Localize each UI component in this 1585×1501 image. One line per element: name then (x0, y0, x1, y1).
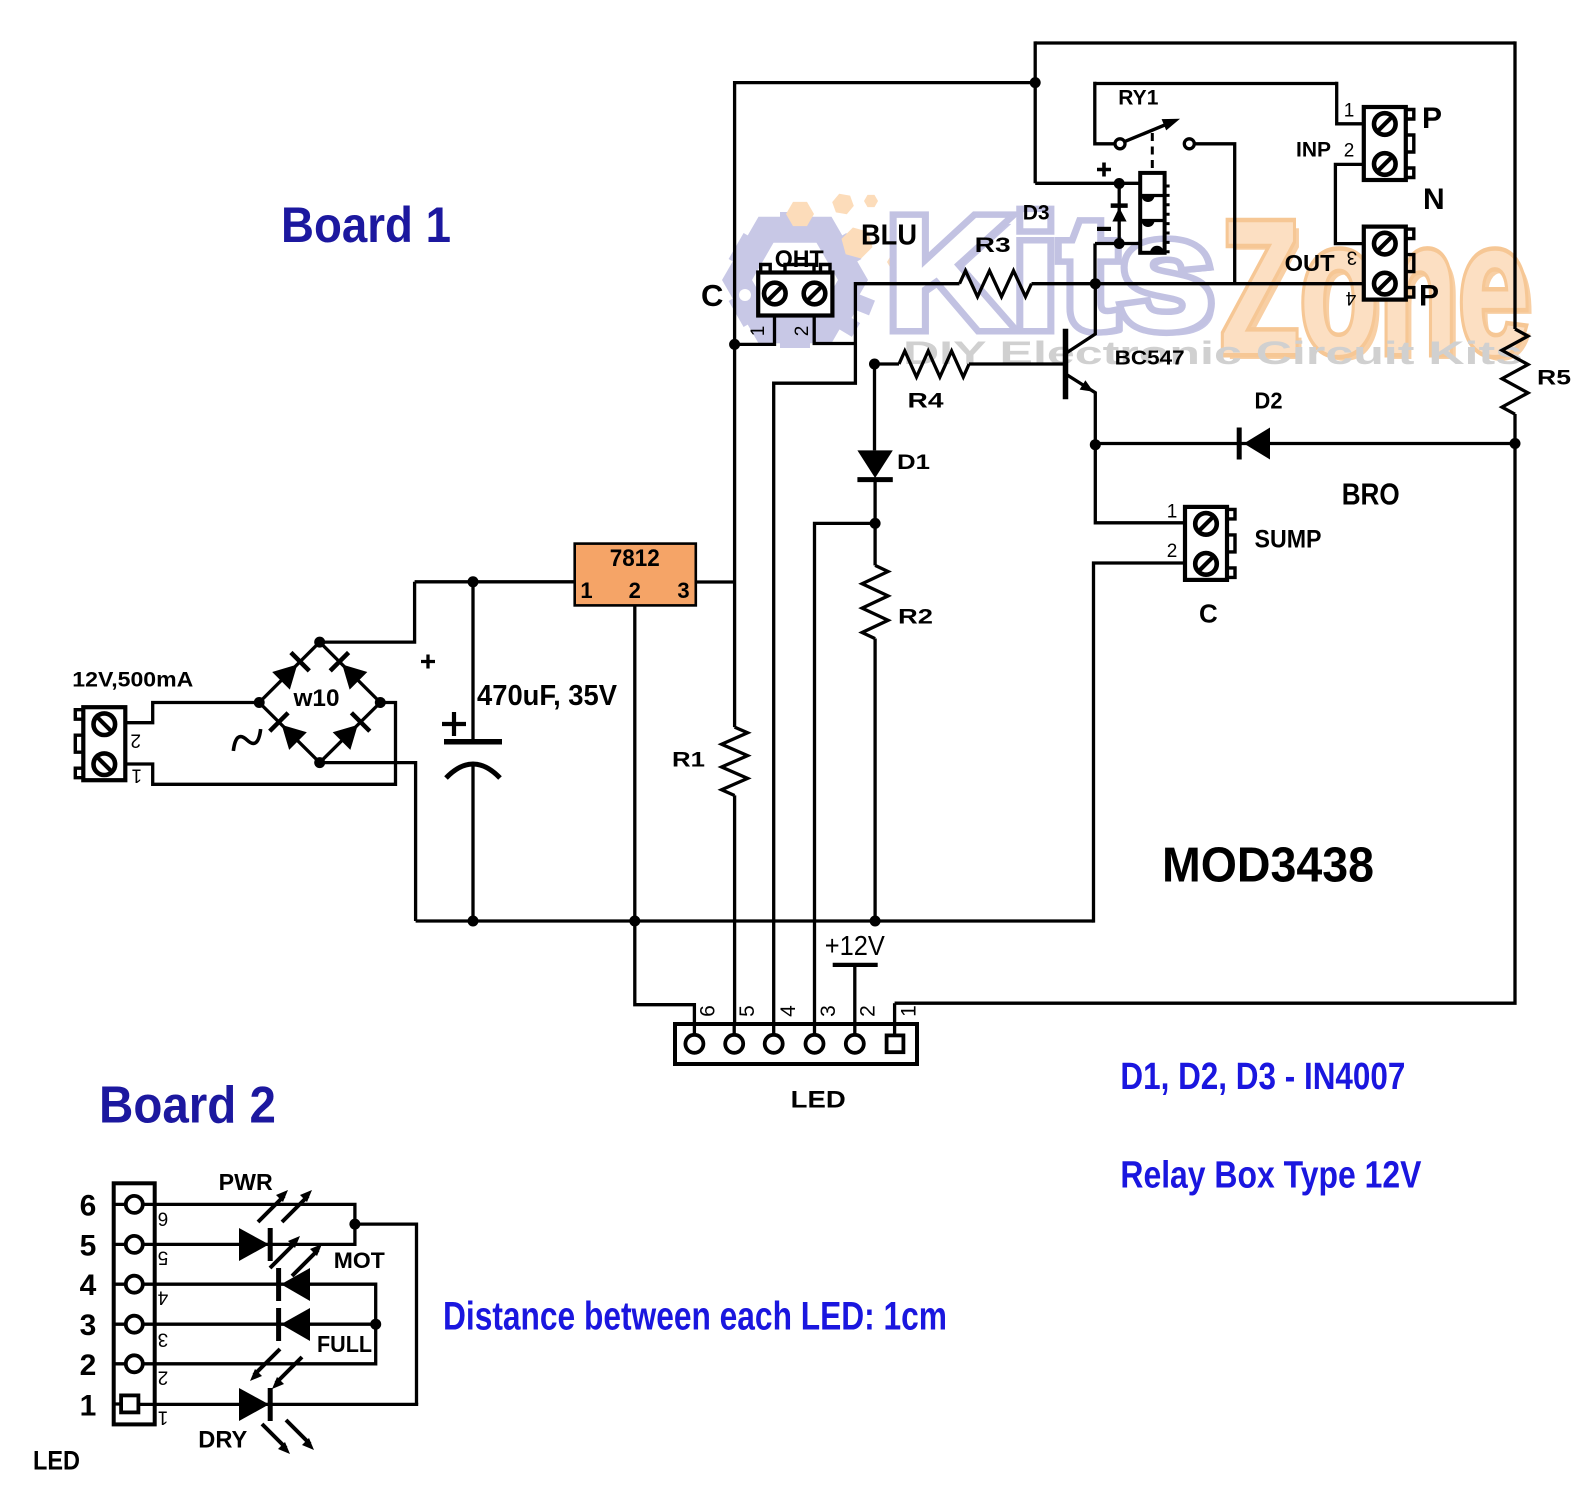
svg-text:R4: R4 (908, 389, 944, 412)
svg-text:BC547: BC547 (1115, 347, 1185, 369)
bridge rectifier W10 diamond (254, 637, 386, 769)
svg-text:D3: D3 (1023, 201, 1050, 224)
node R4 left junction (869, 359, 880, 370)
wire D3 top node from coil supply (1114, 178, 1125, 189)
wire LED pin1 drop (893, 1003, 896, 1024)
wire long C vertical lower part below R1 to LED pin5 (733, 795, 736, 1024)
wire switch NO contact down to OUT line (1194, 144, 1234, 284)
node D3 bottom (1114, 238, 1125, 249)
LED D-DRY diode on pin1 wire (239, 1388, 270, 1421)
pin 5 LED conn (rotated) (736, 1005, 759, 1017)
svg-text:INP: INP (1296, 139, 1331, 162)
wire D1 junction to LED pin3 line (815, 523, 876, 1024)
svg-text:OUT: OUT (1285, 250, 1335, 276)
svg-text:3: 3 (817, 1005, 840, 1017)
wire RY1 inner box top edge (1095, 82, 1337, 85)
+12V bar (833, 963, 878, 967)
wire input pin1 to bridge right vertex return (125, 703, 395, 785)
svg-text:2: 2 (130, 730, 141, 751)
svg-text:R5: R5 (1537, 367, 1571, 390)
wire 7812 pin3 lead to C line (696, 580, 735, 583)
svg-text:C: C (701, 278, 723, 313)
watermark logo backdrop (736, 182, 1536, 400)
diode D3 (1111, 206, 1128, 222)
svg-text:4: 4 (777, 1005, 800, 1017)
capacitor C1 470uF plates (444, 742, 502, 778)
node R3/collector junction (1090, 278, 1101, 289)
diode D1 (857, 450, 892, 479)
node board2 full junction (370, 1319, 381, 1330)
capacitor + polarity (442, 712, 466, 736)
pin 6 LED conn (rotated) (696, 1005, 719, 1017)
terminal block J4 12V input (tabs left) (75, 707, 125, 780)
wire BLU net down to LED pin4 (772, 382, 775, 1025)
wire long C vertical (OHT pin1 / 7812 out net) upper part (733, 81, 736, 727)
pin 2 LED conn (rotated) (857, 1005, 880, 1017)
wire ground rail (416, 919, 1094, 922)
svg-text:1: 1 (158, 1407, 169, 1428)
svg-text:N: N (1423, 183, 1445, 216)
wire R4 right lead to base (969, 362, 1063, 365)
svg-text:DRY: DRY (198, 1427, 247, 1454)
bridge diode upper-right arm (330, 653, 367, 690)
board2 wire pin1 (138, 1403, 418, 1406)
svg-text:RY1: RY1 (1118, 87, 1158, 110)
svg-text:P: P (1419, 280, 1439, 313)
pin 1 board2 inner label (rotated) (158, 1407, 169, 1428)
node 7812 pin2 at rail (629, 916, 640, 927)
node cap at rail (468, 916, 479, 927)
wire emitter node down to SUMP pin1 (1095, 445, 1185, 523)
svg-text:1: 1 (748, 326, 769, 337)
svg-text:4: 4 (1345, 287, 1356, 308)
svg-text:Relay Box Type 12V: Relay Box Type 12V (1120, 1155, 1422, 1197)
board2 wire pin4 (143, 1284, 376, 1324)
wire cap top lead (471, 582, 474, 742)
terminal block J5 OHT (tabs top) (758, 265, 832, 316)
svg-text:R2: R2 (898, 606, 933, 629)
svg-text:LED: LED (791, 1087, 846, 1114)
node board2 pwr junction (349, 1219, 360, 1230)
pin 2 OHT (rotated) (792, 326, 813, 337)
pin 3 LED conn (rotated) (817, 1005, 840, 1017)
svg-text:6: 6 (696, 1005, 719, 1017)
connector LED (board 1) (675, 1024, 917, 1064)
svg-text:BRO: BRO (1342, 477, 1400, 512)
wire rail to SUMP pin2 (1094, 563, 1186, 923)
svg-text:C: C (1199, 599, 1218, 629)
svg-text:3: 3 (80, 1309, 97, 1342)
svg-text:6: 6 (158, 1208, 169, 1229)
board2 wire pin6 (143, 1204, 355, 1224)
svg-text:R3: R3 (975, 234, 1011, 257)
wire INP pin2 to OUT pin3 (1335, 164, 1363, 243)
pin 4 OUT (rotated) (1345, 287, 1356, 308)
wire RY1 inner box left edge to switch (1095, 82, 1116, 144)
svg-text:1: 1 (80, 1389, 97, 1422)
node junction at top box left (1030, 77, 1041, 88)
svg-text:BLU: BLU (861, 219, 917, 251)
diode D2 (1239, 428, 1270, 460)
wire top box left edge (1034, 41, 1037, 183)
node emitter junction (1090, 439, 1101, 450)
wire coil bottom down to R3 junction (1093, 244, 1096, 284)
LED D-PWR diode on pin5 wire (239, 1228, 270, 1261)
pin 4 board2 inner label (rotated) (157, 1287, 168, 1308)
board2 wire loop top (355, 1224, 417, 1404)
wire bridge - output to rail (320, 763, 416, 921)
terminal block J1 INP (1364, 107, 1414, 180)
svg-text:3: 3 (158, 1329, 169, 1350)
svg-text:Board 2: Board 2 (99, 1077, 276, 1135)
wire 7812 pin2 down to rail (633, 605, 636, 921)
terminal block J2 OUT (1364, 227, 1414, 300)
svg-text:FULL: FULL (317, 1331, 372, 1357)
svg-text:2: 2 (80, 1349, 97, 1382)
svg-text:2: 2 (792, 326, 813, 337)
resistor R1 (722, 727, 748, 795)
pin 2 of input block (rotated) (130, 730, 141, 751)
svg-text:2: 2 (158, 1367, 169, 1388)
svg-text:P: P (1422, 102, 1442, 135)
svg-text:D1: D1 (897, 451, 930, 474)
wire D3 vertical (1118, 184, 1121, 244)
resistor R2 (862, 565, 888, 638)
LED D-MOT diode on pin4 wire (279, 1268, 310, 1301)
svg-text:Distance between each LED: 1cm: Distance between each LED: 1cm (443, 1295, 947, 1339)
svg-text:w10: w10 (292, 685, 339, 712)
pin 4 LED conn (rotated) (777, 1005, 800, 1017)
svg-text:2: 2 (629, 578, 641, 603)
board2 wire pin2 (143, 1324, 376, 1364)
pin 1 of input block (rotated) (131, 765, 142, 786)
transistor Q1 BC547 (1066, 284, 1096, 446)
LED PWR emission arrows on pin6 wire (258, 1196, 308, 1222)
svg-text:5: 5 (158, 1247, 169, 1268)
svg-text:1: 1 (580, 578, 592, 603)
svg-text:MOD3438: MOD3438 (1162, 838, 1374, 893)
svg-text:3: 3 (1347, 247, 1358, 268)
wire relay supply from box edge to coil (1035, 182, 1140, 185)
resistor R4 (899, 351, 969, 377)
resistor R5 (1502, 329, 1528, 414)
wire RY1 inner box right edge to INP pin1 (1337, 82, 1364, 124)
wire collector node to OUT pin4 (1032, 282, 1364, 285)
wire R4 left lead (875, 362, 900, 365)
svg-text:MOT: MOT (334, 1248, 386, 1273)
svg-text:1: 1 (131, 765, 142, 786)
node D1/R2 junction (870, 518, 881, 529)
board2 wire pin5 (143, 1224, 355, 1244)
pin 3 board2 inner label (rotated) (158, 1329, 169, 1350)
wire D1 cathode to junction (873, 480, 876, 566)
board2 wire pin3 (143, 1323, 376, 1326)
svg-text:D2: D2 (1255, 387, 1283, 413)
wire +12V stem (853, 965, 856, 1024)
wire D2 line from emitter node to right edge (1095, 442, 1515, 445)
bridge diode lower-left arm (270, 713, 307, 750)
svg-text:1: 1 (897, 1005, 920, 1017)
svg-text:2: 2 (1344, 141, 1355, 162)
wire 7812 pin1 lead (415, 580, 575, 583)
wire R3 left lead (855, 282, 959, 285)
svg-text:4: 4 (80, 1269, 97, 1302)
terminal block J3 SUMP (1185, 507, 1235, 580)
pin 2 board2 inner label (rotated) (158, 1367, 169, 1388)
svg-text:D1, D2, D3 - IN4007: D1, D2, D3 - IN4007 (1120, 1056, 1405, 1098)
svg-text:Board 1: Board 1 (281, 197, 451, 253)
svg-text:+12V: +12V (825, 930, 885, 961)
resistor R3 (960, 271, 1032, 297)
label + of bridge output (421, 655, 435, 669)
wire OHT pin1 stub to C line (735, 316, 775, 345)
node D2 at right edge (1510, 438, 1521, 449)
relay RY1 switch (1115, 119, 1194, 172)
AC sine mark (230, 729, 265, 751)
bridge diode upper-left arm (272, 653, 309, 690)
wire OHT pin2 stub to BLU vertical (814, 316, 855, 344)
svg-text:470uF, 35V: 470uF, 35V (477, 680, 618, 712)
svg-text:4: 4 (157, 1287, 168, 1308)
wire input pin2 to bridge left vertex (125, 703, 259, 723)
relay + mark (1097, 163, 1111, 177)
pin 1 LED conn (rotated) (897, 1005, 920, 1017)
wire from C line to top box (735, 81, 1036, 84)
svg-text:2: 2 (857, 1005, 880, 1017)
wire cap bottom lead to rail (471, 766, 474, 921)
wire R3 vertical down to BLU node (774, 282, 856, 383)
pin 1 OHT (rotated) (748, 326, 769, 337)
svg-text:5: 5 (736, 1005, 759, 1017)
svg-text:OHT: OHT (775, 246, 824, 273)
DRY emission arrows (262, 1420, 310, 1448)
LED D-FULL diode on pin3 wire (279, 1308, 310, 1341)
relay RY1 coil (1140, 173, 1169, 253)
svg-text:1: 1 (1344, 101, 1355, 122)
svg-text:7812: 7812 (610, 545, 660, 572)
wire coil bottom to collector node (1095, 242, 1140, 245)
bridge diode lower-right arm (332, 713, 369, 750)
wire R2 bottom lead to ground rail (873, 639, 876, 922)
wire R4 node vertical to D1 (873, 364, 876, 450)
svg-text:6: 6 (80, 1189, 97, 1222)
svg-text:SUMP: SUMP (1255, 526, 1322, 554)
PWR diode emission arrows (270, 1242, 318, 1276)
FULL emission arrows on pin2 wire (254, 1349, 302, 1383)
node R2 at rail (870, 916, 881, 927)
regulator U1 7812 (575, 544, 696, 606)
wire right edge top (box to R5) (1513, 41, 1516, 329)
wire pin2 net below rail to LED pin6 (635, 921, 695, 1024)
wire top box top edge (1035, 41, 1515, 44)
pin 3 OUT (rotated) (1347, 247, 1358, 268)
svg-text:12V,500mA: 12V,500mA (72, 668, 193, 691)
wire right edge below R5 down to LED pin1 (895, 414, 1515, 1003)
svg-text:3: 3 (677, 578, 689, 603)
node C junction at OHT pin1 (729, 339, 740, 350)
pin 5 board2 inner label (rotated) (158, 1247, 169, 1268)
svg-text:PWR: PWR (219, 1169, 273, 1195)
svg-text:R1: R1 (672, 749, 705, 772)
wire bridge + output up to 7812 line (320, 582, 415, 642)
svg-text:LED: LED (33, 1446, 80, 1476)
svg-text:5: 5 (80, 1229, 97, 1262)
svg-text:1: 1 (1167, 501, 1178, 522)
svg-text:2: 2 (1167, 541, 1178, 562)
connector LED (board 2) (114, 1183, 155, 1424)
node cap top junction (468, 576, 479, 587)
pin 6 board2 inner label (rotated) (158, 1208, 169, 1229)
relay - mark (1097, 227, 1111, 231)
